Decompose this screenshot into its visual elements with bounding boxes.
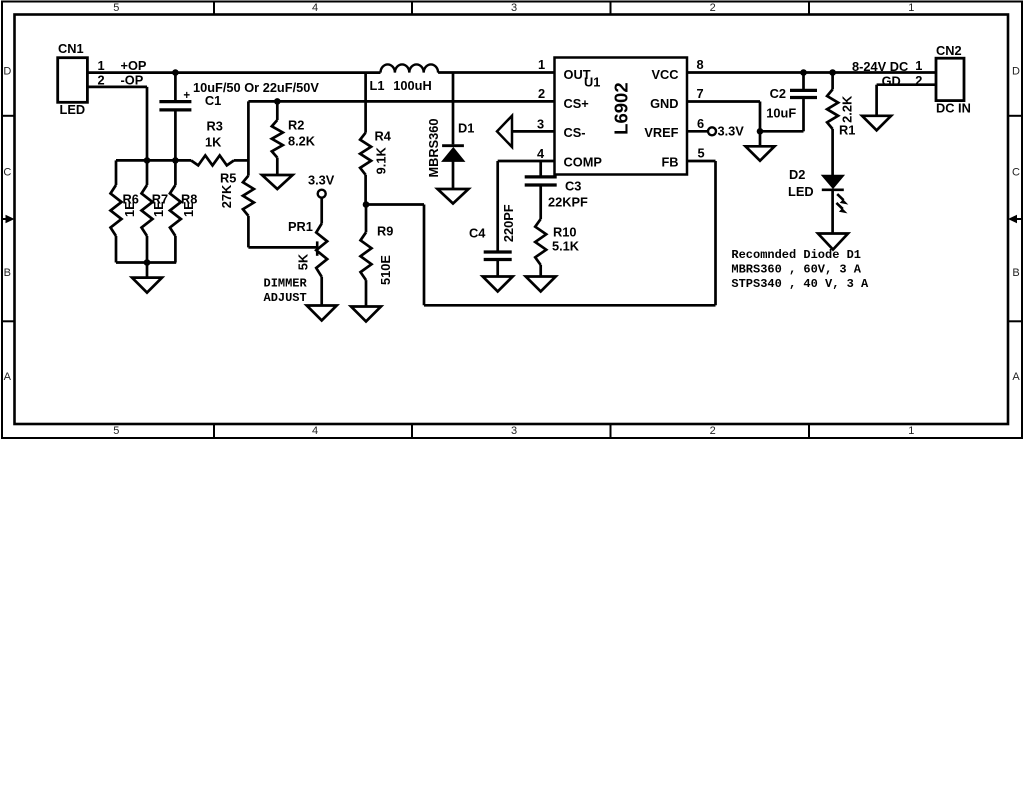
svg-text:A: A	[4, 371, 12, 383]
svg-text:D: D	[3, 65, 11, 77]
svg-text:2: 2	[538, 86, 545, 101]
svg-text:C: C	[1012, 166, 1020, 178]
svg-text:4: 4	[537, 146, 545, 161]
svg-text:GND: GND	[650, 96, 678, 111]
svg-text:2: 2	[710, 2, 716, 14]
svg-text:3: 3	[511, 425, 517, 437]
svg-text:B: B	[1012, 267, 1019, 279]
svg-text:C1: C1	[205, 93, 221, 108]
svg-text:8: 8	[696, 57, 703, 72]
svg-text:U1: U1	[584, 75, 600, 90]
svg-text:LED: LED	[788, 184, 814, 199]
svg-text:PR1: PR1	[288, 219, 313, 234]
svg-text:DC IN: DC IN	[936, 100, 971, 115]
svg-text:1E: 1E	[181, 201, 196, 217]
svg-text:1: 1	[538, 57, 545, 72]
svg-text:MBRS360 , 60V, 3 A: MBRS360 , 60V, 3 A	[731, 262, 861, 276]
svg-text:R5: R5	[220, 171, 236, 186]
svg-text:1: 1	[908, 2, 914, 14]
svg-text:COMP: COMP	[564, 155, 603, 170]
svg-text:1E: 1E	[151, 201, 166, 217]
svg-text:CN2: CN2	[936, 43, 962, 58]
svg-text:R1: R1	[839, 123, 855, 138]
svg-text:8-24V DC: 8-24V DC	[852, 59, 908, 74]
svg-text:C2: C2	[770, 86, 786, 101]
svg-text:CN1: CN1	[58, 41, 84, 56]
svg-text:+OP: +OP	[121, 58, 147, 73]
svg-text:FB: FB	[661, 155, 678, 170]
svg-text:1: 1	[97, 58, 104, 73]
svg-text:A: A	[1012, 371, 1020, 383]
svg-text:2.2K: 2.2K	[840, 95, 855, 123]
svg-text:5: 5	[113, 2, 119, 14]
svg-text:R3: R3	[207, 119, 223, 134]
svg-text:C: C	[3, 166, 11, 178]
svg-text:D1: D1	[458, 121, 474, 136]
svg-text:C4: C4	[469, 226, 486, 241]
svg-text:8.2K: 8.2K	[288, 133, 316, 148]
svg-text:R10: R10	[553, 225, 576, 240]
svg-text:CS-: CS-	[564, 125, 586, 140]
svg-text:27K: 27K	[219, 184, 234, 208]
svg-text:3.3V: 3.3V	[718, 124, 745, 139]
svg-text:DIMMER: DIMMER	[264, 277, 308, 291]
svg-text:MBRS360: MBRS360	[426, 118, 441, 177]
svg-text:1K: 1K	[205, 135, 222, 150]
svg-text:R4: R4	[375, 129, 392, 144]
svg-text:1: 1	[908, 425, 914, 437]
svg-text:D: D	[1012, 65, 1020, 77]
svg-text:1E: 1E	[122, 201, 137, 217]
svg-text:D2: D2	[789, 167, 805, 182]
svg-text:VCC: VCC	[651, 67, 678, 82]
svg-text:10uF: 10uF	[766, 106, 796, 121]
svg-text:3.3V: 3.3V	[308, 172, 335, 187]
svg-text:3: 3	[511, 2, 517, 14]
svg-text:2: 2	[915, 73, 922, 88]
svg-text:C3: C3	[565, 179, 581, 194]
svg-text:GD: GD	[882, 73, 901, 88]
svg-text:STPS340 , 40 V, 3 A: STPS340 , 40 V, 3 A	[731, 277, 869, 291]
svg-text:5.1K: 5.1K	[552, 239, 580, 254]
svg-text:7: 7	[696, 86, 703, 101]
svg-text:4: 4	[312, 425, 318, 437]
svg-text:6: 6	[697, 116, 704, 131]
svg-text:5: 5	[697, 146, 704, 161]
svg-text:5K: 5K	[296, 253, 311, 270]
svg-text:2: 2	[97, 72, 104, 87]
svg-text:9.1K: 9.1K	[374, 147, 389, 175]
svg-text:LED: LED	[60, 102, 86, 117]
svg-text:ADJUST: ADJUST	[264, 291, 307, 305]
svg-text:-OP: -OP	[121, 72, 144, 87]
svg-text:L6902: L6902	[610, 82, 631, 134]
svg-text:510E: 510E	[378, 255, 393, 285]
svg-text:22KPF: 22KPF	[548, 195, 588, 210]
svg-text:220PF: 220PF	[501, 204, 516, 242]
svg-text:R9: R9	[377, 224, 393, 239]
svg-text:CS+: CS+	[564, 96, 589, 111]
svg-text:L1: L1	[370, 78, 385, 93]
svg-text:1: 1	[915, 58, 922, 73]
svg-text:4: 4	[312, 2, 318, 14]
svg-text:Recomnded Diode D1: Recomnded Diode D1	[731, 248, 861, 262]
svg-text:B: B	[4, 267, 11, 279]
svg-text:3: 3	[537, 117, 544, 132]
svg-text:+: +	[183, 90, 190, 102]
svg-text:5: 5	[113, 425, 119, 437]
svg-text:R2: R2	[288, 117, 304, 132]
svg-text:100uH: 100uH	[393, 78, 431, 93]
svg-text:VREF: VREF	[644, 125, 678, 140]
svg-text:2: 2	[710, 425, 716, 437]
